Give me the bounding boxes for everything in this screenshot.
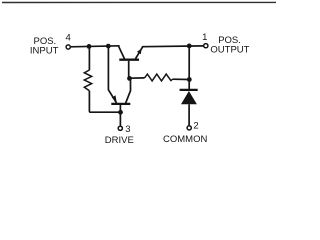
transistor Q1 emitter arrow (NPN) xyxy=(137,49,142,55)
terminal pin 3 DRIVE xyxy=(118,126,122,130)
transistor Q1 collector lead from rail xyxy=(118,46,124,59)
svg-text:1: 1 xyxy=(202,32,207,43)
wire diode to pin 2 xyxy=(188,104,190,125)
top rule border xyxy=(2,1,276,3)
resistor R1 xyxy=(84,70,91,91)
transistor Q1 emitter lead xyxy=(136,47,143,59)
svg-text:OUTPUT: OUTPUT xyxy=(210,45,249,56)
wire output rail xyxy=(142,45,204,48)
node junction B xyxy=(106,44,111,49)
transistor Q2 emitter arrow (PNP) xyxy=(112,95,117,101)
wire drive node to pin 3 xyxy=(119,112,121,126)
wire node A down to R1 xyxy=(88,46,90,70)
svg-text:INPUT: INPUT xyxy=(30,45,59,56)
svg-text:DRIVE: DRIVE xyxy=(105,135,134,146)
svg-text:2: 2 xyxy=(193,121,198,132)
terminal pin 2 COMMON xyxy=(187,126,191,130)
svg-text:3: 3 xyxy=(125,124,130,135)
node junction R2/diode xyxy=(187,77,192,82)
node junction X xyxy=(127,76,132,81)
transistor Q1 base lead down to node X xyxy=(128,61,130,79)
transistor Q2 base bar xyxy=(111,103,130,105)
terminal pin 1 POS. OUTPUT xyxy=(204,44,208,48)
transistor Q2 base lead to drive node xyxy=(119,105,121,113)
wire R2 to output node xyxy=(173,78,190,80)
transistor Q2 collector lead xyxy=(126,78,131,103)
terminal pin 4 POS. INPUT xyxy=(66,45,70,49)
node junction D (drive) xyxy=(118,110,123,115)
wire output node down to diode xyxy=(188,46,190,89)
wire R1 bottom to drive node xyxy=(89,91,120,112)
diode D1 cathode bar xyxy=(180,89,198,91)
node junction A xyxy=(87,44,92,49)
diode D1 anode triangle xyxy=(181,91,197,104)
svg-text:4: 4 xyxy=(66,33,71,44)
transistor Q1 base bar xyxy=(119,59,139,61)
wire node X to R2 xyxy=(130,77,145,79)
svg-text:COMMON: COMMON xyxy=(163,134,207,145)
resistor R2 xyxy=(145,74,173,81)
wire input rail xyxy=(71,46,120,47)
wire node B down to Q2 emitter xyxy=(108,46,116,103)
node junction output xyxy=(187,44,192,49)
